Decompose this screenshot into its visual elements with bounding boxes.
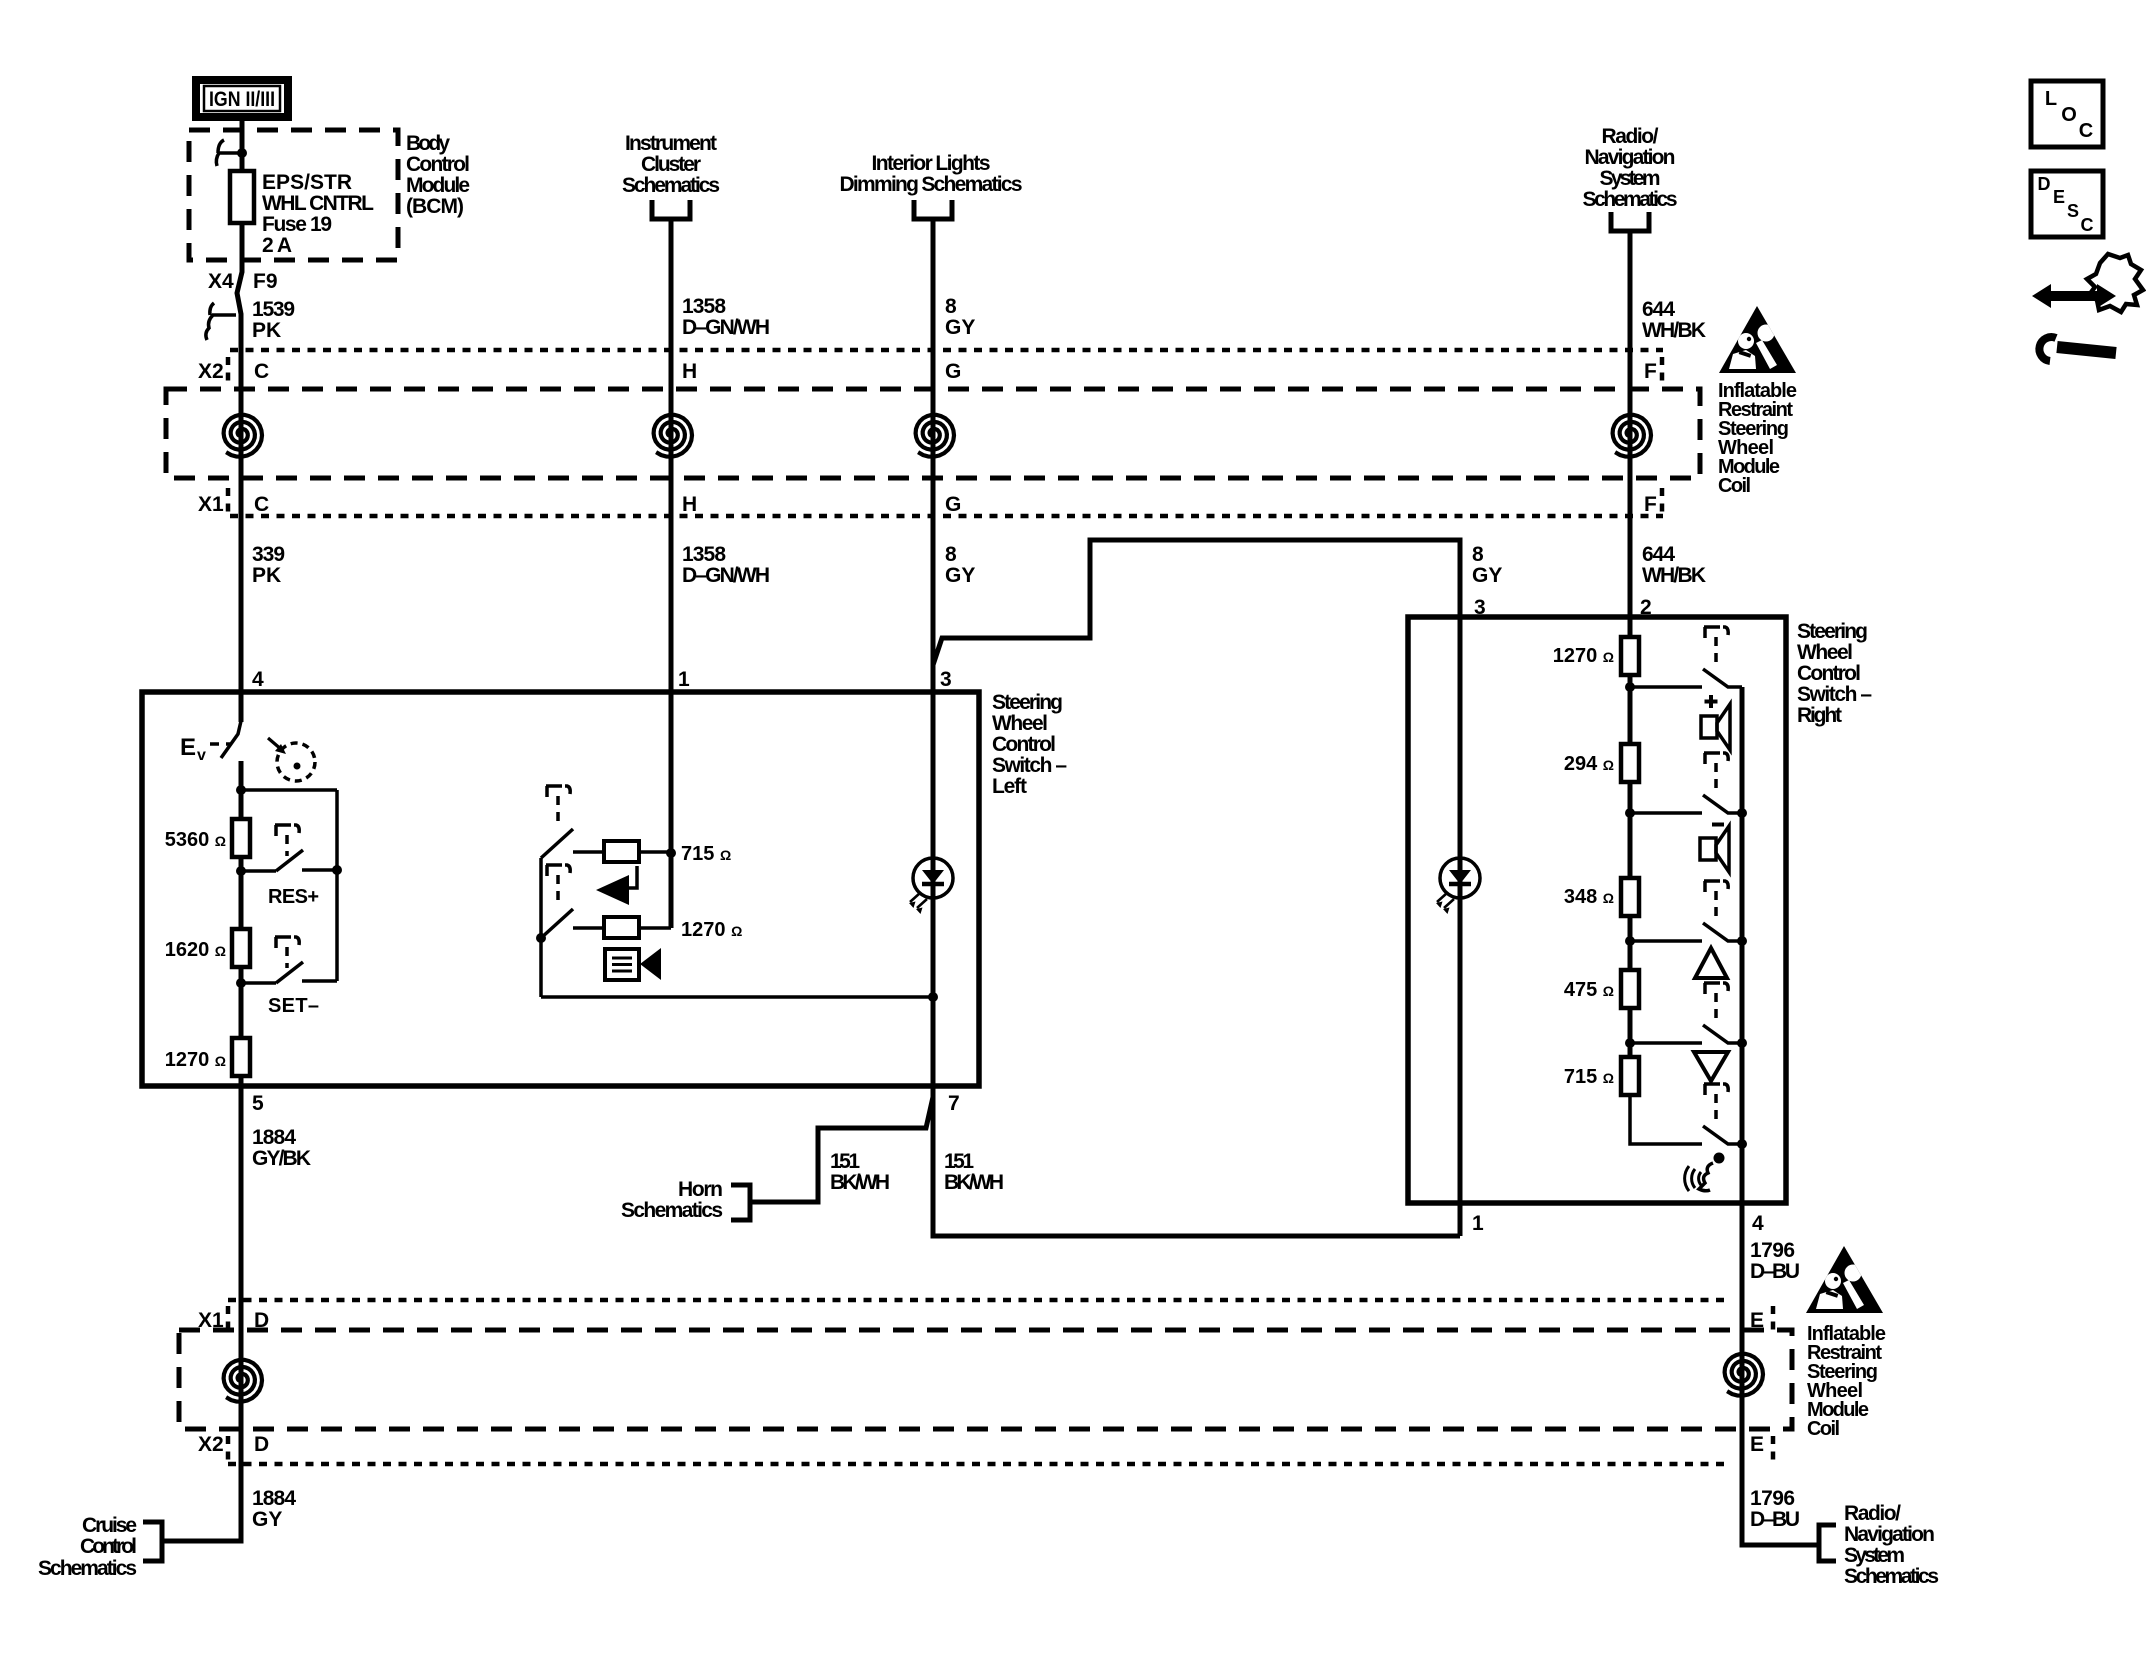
svg-text:Module: Module xyxy=(406,174,470,197)
resistor 715 ohm (horizontal) xyxy=(604,841,639,862)
svg-text:F: F xyxy=(1644,360,1657,383)
wire 1796 D-BU to radio/navigation xyxy=(1742,1464,1819,1545)
wire label 1796 D-BU (lower) xyxy=(1750,1487,1800,1531)
wire label 1884 GY/BK xyxy=(252,1126,311,1170)
svg-text:1270 Ω: 1270 Ω xyxy=(165,1049,226,1071)
wire 1358 lower segment inside box xyxy=(669,853,674,928)
node A junction xyxy=(236,785,246,795)
svg-text:WHL CNTRL: WHL CNTRL xyxy=(262,192,374,215)
chain wire seg 3 xyxy=(1628,916,1633,970)
svg-text:Right: Right xyxy=(1797,704,1842,727)
svg-text:D–GN/WH: D–GN/WH xyxy=(682,316,770,339)
wire 644 WH/BK from radio/navigation xyxy=(1628,231,1633,617)
svg-text:F: F xyxy=(1644,493,1657,516)
legend icon replace-part arrow xyxy=(2032,284,2116,308)
switch 5 bus junction xyxy=(1737,1139,1747,1149)
off-page connector to Instrument Cluster xyxy=(652,200,690,219)
svg-text:8: 8 xyxy=(1472,543,1484,566)
chain wire to switch 5 xyxy=(1630,1095,1702,1144)
connector X2 tick (bottom) xyxy=(226,1436,231,1461)
svg-text:X2: X2 xyxy=(198,1433,224,1456)
off-page connector to Horn Schematics xyxy=(731,1185,750,1220)
svg-text:C: C xyxy=(254,493,269,516)
volume down switch blade xyxy=(541,909,573,938)
svg-text:H: H xyxy=(682,493,697,516)
svg-text:1: 1 xyxy=(1472,1212,1484,1235)
svg-text:(BCM): (BCM) xyxy=(406,195,464,218)
svg-text:4: 4 xyxy=(1752,1212,1764,1235)
svg-text:644: 644 xyxy=(1642,298,1675,321)
pin E tick (X2 bottom) xyxy=(1771,1436,1776,1461)
wire label 644 WH/BK (lower) xyxy=(1642,543,1706,587)
mute icon xyxy=(605,948,661,980)
svg-text:715 Ω: 715 Ω xyxy=(1564,1066,1614,1088)
svg-text:Interior Lights: Interior Lights xyxy=(872,152,991,175)
resistor 348 ohm xyxy=(1621,878,1639,916)
wire horn branch 151 BK/WH xyxy=(750,1097,933,1202)
svg-text:Navigation: Navigation xyxy=(1585,146,1676,169)
svg-text:Cluster: Cluster xyxy=(641,153,701,176)
wire from X2 row through coil to X1 row and to left box pin 4 xyxy=(239,350,244,692)
SET- switch blade xyxy=(276,962,303,983)
power label IGN II/III xyxy=(196,80,288,117)
cruise speed gauge icon xyxy=(268,738,315,781)
legend icon part outline xyxy=(2087,254,2143,312)
switch 4 (seek down) lead xyxy=(1630,1041,1702,1045)
RES+ switch: fixed lead xyxy=(241,869,276,873)
off-page connector to Interior Lights Dimming xyxy=(914,200,952,219)
volume up switch blade xyxy=(541,829,573,858)
svg-text:Instrument: Instrument xyxy=(625,132,717,155)
svg-text:D: D xyxy=(2038,174,2051,194)
svg-text:Coil: Coil xyxy=(1718,475,1751,497)
svg-text:D–GN/WH: D–GN/WH xyxy=(682,564,770,587)
svg-text:Cruise: Cruise xyxy=(82,1514,137,1537)
svg-text:Control: Control xyxy=(992,733,1056,756)
wire LED to pin 1 xyxy=(1458,858,1463,1236)
chain wire seg 1 xyxy=(1628,675,1633,744)
label Inflatable Restraint Steering Wheel Module Coil (bottom) xyxy=(1807,1323,1886,1440)
switch 1 (volume up) lead xyxy=(1630,685,1702,689)
chain wire seg 4 xyxy=(1628,1008,1633,1057)
svg-text:Left: Left xyxy=(992,775,1027,798)
wire 1884 GY to cruise control xyxy=(162,1464,241,1541)
svg-text:1796: 1796 xyxy=(1750,1487,1795,1510)
wire 151 BK/WH from pin 7 down and over to right box pin 1 xyxy=(933,1086,1460,1236)
wire from IGN II/III into BCM xyxy=(240,121,245,171)
svg-text:3: 3 xyxy=(940,668,952,691)
svg-text:GY: GY xyxy=(945,316,975,339)
fuse EPS/STR WHL CNTRL Fuse 19 2A xyxy=(230,171,254,223)
svg-text:GY: GY xyxy=(252,1508,282,1531)
node R2 junction xyxy=(1625,808,1635,818)
wire tap symbol at 1539 PK xyxy=(206,303,236,340)
svg-text:1: 1 xyxy=(678,668,690,691)
pin F tick (X2) xyxy=(1660,357,1665,384)
svg-text:715 Ω: 715 Ω xyxy=(681,843,731,865)
svg-text:X2: X2 xyxy=(198,360,224,383)
svg-text:1796: 1796 xyxy=(1750,1239,1795,1262)
label Inflatable Restraint Steering Wheel Module Coil (top) xyxy=(1718,380,1797,497)
wire label 151 BK/WH (right) xyxy=(944,1150,1004,1194)
svg-text:E: E xyxy=(180,734,196,761)
1270 ohm resistor lead left xyxy=(573,926,604,930)
svg-text:Wheel: Wheel xyxy=(992,712,1048,735)
wire label 151 BK/WH (left) xyxy=(830,1150,890,1194)
svg-text:C: C xyxy=(2081,215,2094,235)
svg-text:RES+: RES+ xyxy=(268,886,319,908)
wire pin 2 into resistor chain xyxy=(1628,617,1633,637)
label Body Control Module (BCM) xyxy=(406,132,470,218)
svg-text:H: H xyxy=(682,360,697,383)
label Steering Wheel Control Switch - Right xyxy=(1797,620,1872,727)
svg-text:Control: Control xyxy=(406,153,470,176)
resistor 1270 ohm (right chain) xyxy=(1621,637,1639,675)
svg-text:1358: 1358 xyxy=(682,295,726,318)
svg-text:S: S xyxy=(2067,201,2079,221)
label Horn Schematics xyxy=(621,1178,723,1222)
junction bus/wire3 xyxy=(928,992,938,1002)
cruise on/off switch blade xyxy=(239,692,244,722)
svg-text:BK/WH: BK/WH xyxy=(944,1171,1004,1194)
svg-text:Switch –: Switch – xyxy=(1797,683,1872,706)
svg-text:IGN II/III: IGN II/III xyxy=(209,88,275,111)
svg-text:SET–: SET– xyxy=(268,995,319,1017)
bus RES+/SET- vertical xyxy=(335,790,339,981)
off-page connector to Cruise Control Schematics xyxy=(143,1522,162,1561)
svg-text:WH/BK: WH/BK xyxy=(1642,564,1706,587)
switch 3 blade xyxy=(1703,923,1742,941)
svg-text:D: D xyxy=(254,1433,269,1456)
connector X1 row (dotted) xyxy=(230,514,1663,519)
junction wire1/715 xyxy=(666,848,676,858)
connector X2 row (bottom, dotted) xyxy=(228,1462,1724,1467)
svg-text:E: E xyxy=(1750,1433,1764,1456)
svg-text:Schematics: Schematics xyxy=(622,174,720,197)
1270 ohm resistor lead right xyxy=(639,926,671,930)
svg-text:644: 644 xyxy=(1642,543,1675,566)
switch 2 actuator xyxy=(1704,753,1728,792)
connector X1 tick (bottom) xyxy=(226,1306,231,1332)
module box Body Control Module (BCM), dashed xyxy=(189,130,398,260)
svg-text:Navigation: Navigation xyxy=(1844,1523,1935,1546)
connector X2 tick xyxy=(226,357,231,384)
svg-text:C: C xyxy=(2079,120,2093,142)
wire node B stub xyxy=(239,857,244,929)
svg-text:2 A: 2 A xyxy=(262,234,292,257)
label Interior Lights Dimming Schematics xyxy=(840,152,1023,196)
svg-text:Dimming Schematics: Dimming Schematics xyxy=(840,173,1023,196)
connector X1 row (bottom, dotted) xyxy=(228,1298,1724,1303)
clockspring coil (wire 1796) xyxy=(1725,1354,1763,1396)
svg-text:System: System xyxy=(1844,1544,1905,1567)
svg-text:7: 7 xyxy=(948,1092,960,1115)
svg-text:475 Ω: 475 Ω xyxy=(1564,979,1614,1001)
off-page connector to Radio/Navigation (bottom) xyxy=(1819,1525,1836,1561)
svg-text:1620 Ω: 1620 Ω xyxy=(165,939,226,961)
component box Steering Wheel Control Switch - Left xyxy=(142,692,979,1086)
wire node A to resistor bus xyxy=(241,788,337,792)
svg-text:D–BU: D–BU xyxy=(1750,1508,1800,1531)
SET- actuator xyxy=(275,937,299,968)
node R3 junction xyxy=(1625,936,1635,946)
resistor 715 ohm (right chain) xyxy=(1621,1057,1639,1095)
wire label 1796 D-BU (upper) xyxy=(1750,1239,1800,1283)
svg-text:Coil: Coil xyxy=(1807,1418,1840,1440)
wire 8 GY from interior lights dimming xyxy=(931,219,936,692)
switch 4 bus junction xyxy=(1737,1038,1747,1048)
svg-text:1884: 1884 xyxy=(252,1487,296,1510)
svg-text:G: G xyxy=(945,360,961,383)
seek icon (track back) xyxy=(596,866,637,905)
svg-text:Schematics: Schematics xyxy=(621,1199,723,1222)
label Radio/Navigation System Schematics (top) xyxy=(1583,125,1678,211)
svg-text:D–BU: D–BU xyxy=(1750,1260,1800,1283)
svg-text:1539: 1539 xyxy=(252,298,295,321)
switch 2 blade xyxy=(1703,795,1742,813)
svg-text:8: 8 xyxy=(945,295,957,318)
volume down icon - xyxy=(1712,823,1724,827)
connector X2 row (top, dotted) xyxy=(230,348,1663,353)
label Instrument Cluster Schematics xyxy=(622,132,720,197)
svg-text:5: 5 xyxy=(252,1092,264,1115)
svg-text:8: 8 xyxy=(945,543,957,566)
resistor 1270 ohm (left chain) xyxy=(232,1038,250,1076)
svg-text:BK/WH: BK/WH xyxy=(830,1171,890,1194)
node B junction xyxy=(236,866,246,876)
svg-text:Steering: Steering xyxy=(992,691,1063,714)
LED backlight (right box) xyxy=(1436,858,1480,914)
svg-text:339: 339 xyxy=(252,543,285,566)
chain wire seg 2 xyxy=(1628,782,1633,878)
svg-text:1270 Ω: 1270 Ω xyxy=(681,919,742,941)
component box Steering Wheel Control Switch - Right xyxy=(1408,617,1786,1203)
svg-text:v: v xyxy=(197,747,206,764)
switch 2 (volume down) lead xyxy=(1630,811,1702,815)
pin F tick (X1) xyxy=(1660,488,1665,512)
node C junction xyxy=(236,978,246,988)
clockspring coil (wire 8 GY) xyxy=(916,415,954,457)
SET- switch: fixed lead xyxy=(241,981,276,985)
svg-text:System: System xyxy=(1600,167,1661,190)
switch 4 blade xyxy=(1703,1025,1742,1043)
legend icon wrench xyxy=(2039,337,2116,361)
clockspring coil (wire 339 PK) xyxy=(224,415,262,457)
pin E tick (X1 bottom) xyxy=(1771,1306,1776,1332)
clockspring coil (wire 644) xyxy=(1613,415,1651,457)
svg-text:1358: 1358 xyxy=(682,543,726,566)
volume down actuator xyxy=(546,865,570,905)
warning triangle inflatable restraint (bottom) xyxy=(1806,1246,1883,1313)
legend box DESC xyxy=(2031,171,2103,237)
clockspring coil (wire 1358) xyxy=(654,415,692,457)
legend box LOC xyxy=(2031,81,2103,147)
node R4 junction xyxy=(1625,1038,1635,1048)
wire 1796 D-BU from pin 4 xyxy=(1740,1203,1745,1464)
svg-text:Fuse 19: Fuse 19 xyxy=(262,213,332,236)
wire label 1539 PK xyxy=(252,298,295,342)
module box Inflatable Restraint Steering Wheel Module Coil (top, dashed) xyxy=(166,389,1700,478)
wire below cruise switch to node A xyxy=(239,761,244,819)
switch 5 actuator xyxy=(1704,1084,1728,1123)
switch 3 actuator xyxy=(1704,881,1728,920)
ignition feed tap symbol xyxy=(216,140,247,166)
svg-text:O: O xyxy=(2061,104,2077,126)
wire volume bus to wire 3 xyxy=(541,995,933,999)
svg-text:Radio/: Radio/ xyxy=(1602,125,1659,148)
svg-text:1270 Ω: 1270 Ω xyxy=(1553,645,1614,667)
svg-text:Control: Control xyxy=(80,1535,137,1558)
svg-text:EPS/STR: EPS/STR xyxy=(262,171,352,194)
switch 3 (seek up) lead xyxy=(1630,939,1702,943)
svg-text:1884: 1884 xyxy=(252,1126,296,1149)
switch 1 actuator xyxy=(1704,627,1728,666)
warning triangle inflatable restraint (top) xyxy=(1719,306,1796,373)
RES+ actuator xyxy=(275,825,299,856)
svg-text:X4: X4 xyxy=(208,270,234,293)
volume switches bus (inside left box) xyxy=(539,858,543,997)
svg-text:WH/BK: WH/BK xyxy=(1642,319,1706,342)
svg-text:Steering: Steering xyxy=(1797,620,1868,643)
svg-text:L: L xyxy=(2045,88,2057,110)
label Steering Wheel Control Switch - Left xyxy=(992,691,1067,798)
label Cruise Control Schematics xyxy=(38,1514,137,1580)
LED backlight (left box) xyxy=(909,858,953,914)
svg-text:151: 151 xyxy=(944,1150,974,1173)
wire 1358 D-GN/WH from instrument cluster xyxy=(669,219,674,853)
svg-text:4: 4 xyxy=(252,668,264,691)
svg-text:Radio/: Radio/ xyxy=(1844,1502,1901,1525)
volume up speaker icon xyxy=(1701,704,1730,750)
svg-text:G: G xyxy=(945,493,961,516)
SET- switch output lead xyxy=(302,979,337,983)
module box Inflatable Restraint Steering Wheel Module Coil (bottom, dashed) xyxy=(179,1330,1792,1429)
off-page connector to Radio/Navigation xyxy=(1611,212,1649,231)
seek down triangle icon xyxy=(1694,1052,1728,1081)
volume down speaker icon xyxy=(1700,826,1729,872)
wire label 8 GY (lower left) xyxy=(945,543,975,587)
wire label 8 GY (right branch) xyxy=(1472,543,1502,587)
switch 3 bus junction xyxy=(1737,936,1747,946)
svg-text:GY: GY xyxy=(1472,564,1502,587)
switch 2 bus junction xyxy=(1737,808,1747,818)
svg-text:348 Ω: 348 Ω xyxy=(1564,886,1614,908)
wire label 1884 GY xyxy=(252,1487,296,1531)
switch 1 blade xyxy=(1703,669,1742,687)
RES+ switch blade xyxy=(276,850,303,871)
label fuse EPS/STR WHL CNTRL Fuse 19 2 A xyxy=(262,171,374,257)
RES+ switch output lead xyxy=(302,868,337,872)
svg-text:5360 Ω: 5360 Ω xyxy=(165,829,226,851)
connector label X4 / F9 xyxy=(208,270,278,293)
wire 8 GY branch jog to right box pin 3 xyxy=(933,540,1460,858)
connector X1 tick xyxy=(226,488,231,512)
resistor 1270 ohm (horizontal) xyxy=(604,917,639,938)
svg-text:F9: F9 xyxy=(253,270,278,293)
svg-text:GY/BK: GY/BK xyxy=(252,1147,311,1170)
volume down switch pivot junction xyxy=(536,933,546,943)
svg-text:294 Ω: 294 Ω xyxy=(1564,753,1614,775)
wire resistor chain to pin 5 xyxy=(239,1076,244,1086)
volume up actuator xyxy=(546,786,570,826)
resistor 294 ohm xyxy=(1621,744,1639,782)
resistor 1620 ohm xyxy=(232,929,250,967)
RES+ junction on bus xyxy=(332,865,342,875)
voice recognition icon xyxy=(1685,1153,1725,1192)
svg-text:E: E xyxy=(2053,187,2065,207)
svg-text:Schematics: Schematics xyxy=(1844,1565,1939,1588)
cruise on/off switch actuator dashes xyxy=(210,742,230,746)
wire label 1358 D-GN/WH (lower) xyxy=(682,543,770,587)
svg-text:Horn: Horn xyxy=(678,1178,723,1201)
svg-text:Control: Control xyxy=(1797,662,1861,685)
svg-text:Wheel: Wheel xyxy=(1797,641,1853,664)
seek up triangle icon xyxy=(1695,948,1727,978)
715 ohm resistor lead right xyxy=(639,850,671,854)
svg-text:PK: PK xyxy=(252,319,281,342)
clockspring coil (wire 1884) xyxy=(224,1360,262,1402)
wire label 339 PK xyxy=(252,543,285,587)
wire label 644 WH/BK (upper) xyxy=(1642,298,1706,342)
wire label 8 GY (upper) xyxy=(945,295,975,339)
715 ohm resistor lead left xyxy=(573,850,604,854)
wire label 1358 D-GN/WH (upper) xyxy=(682,295,770,339)
svg-text:GY: GY xyxy=(945,564,975,587)
svg-text:Switch –: Switch – xyxy=(992,754,1067,777)
svg-text:X1: X1 xyxy=(198,493,224,516)
switch 4 actuator xyxy=(1704,983,1728,1022)
svg-text:Body: Body xyxy=(406,132,450,155)
svg-text:C: C xyxy=(254,360,269,383)
wire 1884 GY/BK from pin 5 xyxy=(239,1086,244,1464)
cruise on/off switch label Ev xyxy=(180,734,206,764)
label Radio/Navigation System Schematics (bottom) xyxy=(1844,1502,1939,1588)
svg-text:PK: PK xyxy=(252,564,281,587)
wire 3 inside left box xyxy=(931,692,936,1086)
svg-text:Schematics: Schematics xyxy=(1583,188,1678,211)
resistor 5360 ohm xyxy=(232,819,250,857)
switches output bus xyxy=(1740,687,1745,1203)
wire node C stub xyxy=(239,967,244,1038)
switch 5 blade xyxy=(1703,1126,1742,1144)
svg-text:Schematics: Schematics xyxy=(38,1557,137,1580)
svg-text:151: 151 xyxy=(830,1150,860,1173)
resistor 475 ohm xyxy=(1621,970,1639,1008)
node R1 junction xyxy=(1625,682,1635,692)
wire fuse to connector X4 pin F9 xyxy=(237,223,242,350)
volume up icon + xyxy=(1705,695,1718,708)
